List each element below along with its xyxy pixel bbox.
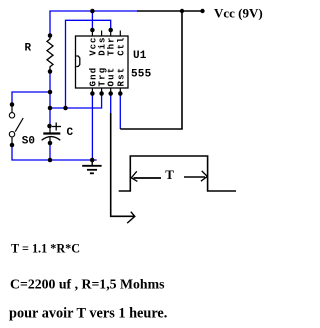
- node Thr pin dot: [108, 28, 113, 33]
- pin tick Vcc: [91, 31, 93, 37]
- svg-text:S0: S0: [22, 136, 35, 148]
- wire Out drop (blue part): [110, 94, 112, 114]
- node switch bottom dot: [10, 143, 15, 148]
- node Out pin dot: [108, 91, 113, 96]
- wire Vcc pin drop: [91, 11, 93, 30]
- node dot R/row108 junction: [48, 106, 53, 111]
- node Vcc terminal dot: [200, 9, 204, 13]
- pin tick Out: [110, 88, 112, 94]
- wire top Vcc rail (blue): [50, 11, 138, 36]
- node cap top dot (capacitor C): [47, 124, 52, 129]
- node Trg pin dot: [99, 91, 104, 96]
- svg-text:T = 1.1 *R*C: T = 1.1 *R*C: [11, 242, 80, 256]
- svg-text:C=2200 uf , R=1,5 Mohms: C=2200 uf , R=1,5 Mohms: [10, 277, 165, 292]
- svg-text:Thr: Thr: [107, 37, 117, 56]
- wire black annotation Vcc line: [137, 10, 203, 12]
- node switch top dot (switch S0): [10, 102, 15, 107]
- pin tick Rst: [119, 88, 121, 94]
- arrow head out: [127, 212, 135, 223]
- wire cap bottom: [49, 143, 51, 160]
- arrow T left: [131, 171, 137, 181]
- svg-text:Ctl: Ctl: [116, 37, 126, 56]
- IC U1 555 timer body: [76, 36, 129, 88]
- wire Rst drop: [119, 94, 121, 130]
- node cap bottom dot: [48, 141, 53, 146]
- ground symbol: [82, 160, 101, 173]
- svg-text:T: T: [165, 167, 174, 182]
- node Rst pin dot: [118, 91, 123, 96]
- waveform pulse: [119, 156, 236, 191]
- node dot rail2/row108 junction: [63, 106, 68, 111]
- svg-text:R: R: [25, 43, 32, 55]
- pin tick Trg: [101, 88, 103, 94]
- svg-text:Out: Out: [107, 67, 117, 87]
- cap top plate: [43, 132, 60, 134]
- wire bottom rail: [12, 145, 97, 160]
- wire Out annotation (black): [111, 113, 134, 216]
- wire second rail to Thr: [66, 20, 111, 108]
- node resistor bottom dot: [48, 69, 53, 74]
- cap top stem: [49, 126, 51, 133]
- node dot bottom rail / cap: [48, 158, 53, 163]
- node dot bottom rail / ground: [90, 158, 95, 163]
- switch bottom stem: [11, 137, 13, 145]
- svg-text:C: C: [67, 127, 74, 139]
- node Vcc pin dot: [90, 28, 95, 33]
- switch top contact circle: [9, 113, 14, 118]
- arrow T right: [201, 171, 207, 181]
- wire black Rst-to-Vcc loop: [120, 11, 182, 129]
- wire node row y108 to Trg: [50, 94, 102, 109]
- pin tick Thr: [110, 31, 112, 37]
- wire resistor column down to cap: [49, 72, 51, 127]
- pin tick Dis: [101, 31, 103, 37]
- node dot top-wire/Vcc-pin: [90, 9, 95, 14]
- svg-text:555: 555: [131, 69, 152, 81]
- node junction top wire: [180, 9, 184, 13]
- node Gnd pin dot: [90, 91, 95, 96]
- switch top stem: [11, 105, 13, 114]
- svg-text:U1: U1: [133, 50, 147, 62]
- svg-text:Vcc (9V): Vcc (9V): [214, 6, 263, 21]
- wire switch top branch: [12, 92, 50, 105]
- wire Gnd pin to ground: [91, 94, 93, 161]
- svg-text:Rst: Rst: [116, 67, 126, 87]
- cap bottom stem: [49, 137, 51, 143]
- resistor R: [47, 36, 53, 72]
- node resistor top dot: [48, 33, 53, 38]
- cap curved plate: [42, 137, 61, 141]
- switch lever: [15, 118, 23, 132]
- pin tick Gnd: [91, 88, 93, 94]
- switch bottom contact circle: [9, 132, 14, 137]
- node dot R/switch junction: [48, 90, 53, 95]
- svg-text:pour avoir T vers 1 heure.: pour avoir T vers 1 heure.: [9, 306, 167, 322]
- IC notch: [76, 56, 80, 67]
- cap plus sign: [52, 126, 61, 128]
- pin tick Ctl: [119, 31, 121, 37]
